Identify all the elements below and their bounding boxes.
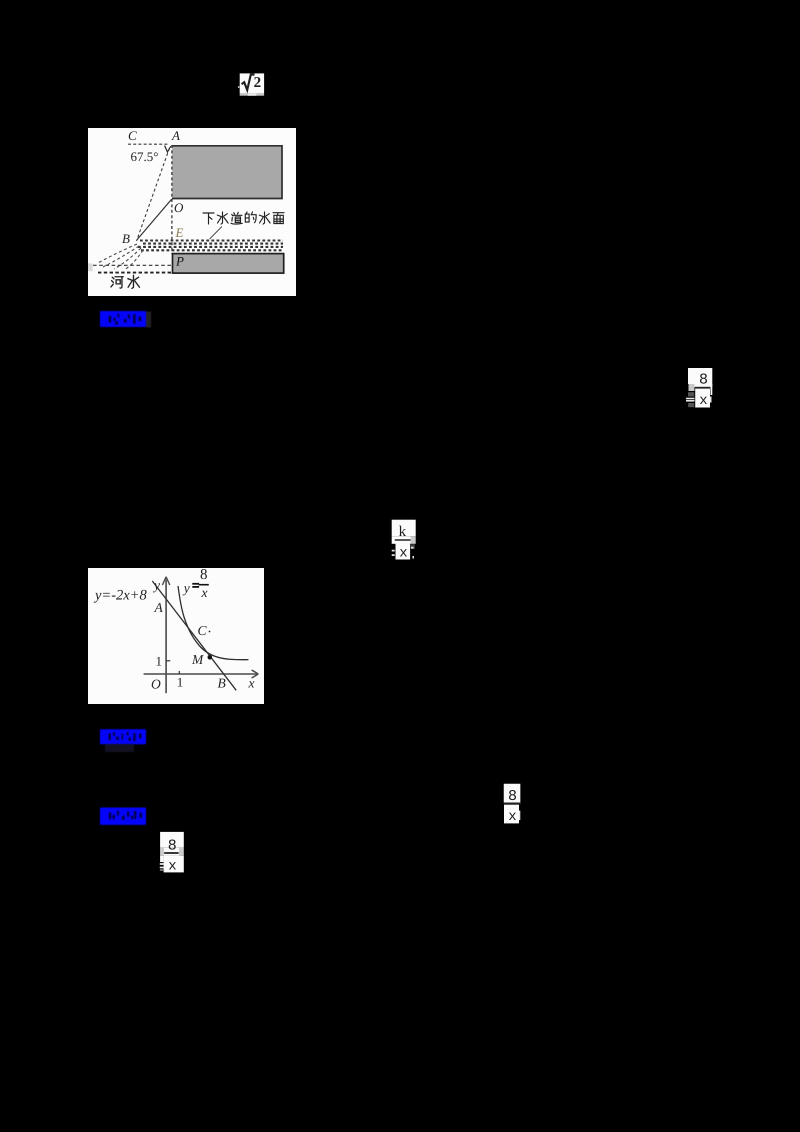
svg-text:1: 1 — [177, 674, 184, 689]
blue marker 2 — [98, 727, 152, 755]
svg-text:M: M — [191, 652, 204, 667]
svg-text:x: x — [168, 859, 176, 875]
svg-text:1: 1 — [156, 654, 163, 669]
svg-text:x: x — [508, 809, 516, 825]
dashed line C to A — [128, 143, 169, 145]
x tick and label 1 — [178, 671, 180, 674]
svg-text:y: y — [152, 578, 160, 593]
y axis arrowhead — [162, 577, 169, 585]
svg-text:B: B — [218, 676, 226, 691]
diagram: hyperbola and line graph — [88, 568, 264, 704]
svg-text:E: E — [175, 225, 184, 240]
svg-text:x: x — [399, 546, 407, 562]
x axis — [144, 673, 257, 675]
svg-text:C: C — [128, 128, 137, 143]
y tick and label 1 — [166, 660, 170, 662]
text: he shui — [111, 275, 140, 288]
svg-text:O: O — [151, 677, 161, 692]
bottom gray wall rectangle — [173, 254, 284, 274]
svg-text:2: 2 — [254, 75, 262, 91]
hyperbola y=8/x — [178, 586, 249, 660]
svg-text:C: C — [198, 623, 208, 638]
blue marker 3 — [98, 805, 152, 829]
dashed line A to B — [137, 148, 170, 241]
x axis arrowhead — [252, 670, 259, 678]
formula image 8/x (third) — [158, 830, 186, 876]
angle mark at A — [165, 146, 171, 153]
text: xia shui dao de shui mian — [203, 212, 284, 224]
formula image 8/x (first) — [685, 366, 715, 410]
svg-text:y: y — [182, 580, 190, 595]
svg-text:8: 8 — [168, 838, 177, 855]
vertical dashed line A-O-E-P — [171, 145, 173, 254]
blue marker 1 — [98, 309, 152, 333]
formula image k/x — [390, 518, 418, 562]
top gray wall rectangle — [172, 146, 281, 198]
left gray block — [88, 263, 93, 271]
svg-text:8: 8 — [699, 372, 708, 389]
formula image 8/x (second) — [502, 782, 524, 826]
svg-text:y=-2x+8: y=-2x+8 — [93, 588, 148, 604]
svg-text:8: 8 — [200, 568, 208, 583]
svg-text:8: 8 — [508, 788, 517, 805]
svg-text:A: A — [154, 600, 164, 615]
svg-text:k: k — [399, 524, 407, 540]
svg-text:O: O — [174, 200, 184, 215]
svg-text:67.5°: 67.5° — [131, 149, 159, 164]
river dashed line 2 — [98, 272, 172, 274]
solid line O to B — [137, 199, 172, 240]
line y=-2x+8 — [152, 581, 236, 690]
river dashed line 1 — [93, 264, 171, 266]
svg-text:x: x — [699, 393, 707, 409]
svg-text:B: B — [122, 231, 130, 246]
svg-text:x: x — [201, 585, 208, 600]
sewer water dotted rows — [140, 239, 283, 241]
svg-text:x: x — [248, 676, 255, 691]
leader line from text to water — [210, 227, 222, 240]
svg-text:P: P — [175, 254, 184, 269]
formula image sqrt(2) — [238, 72, 266, 98]
diagram: sewer cross-section figure — [88, 128, 296, 296]
fan of dashed flow curves from B — [97, 244, 137, 264]
svg-text:A: A — [171, 128, 180, 143]
y axis — [165, 580, 167, 694]
